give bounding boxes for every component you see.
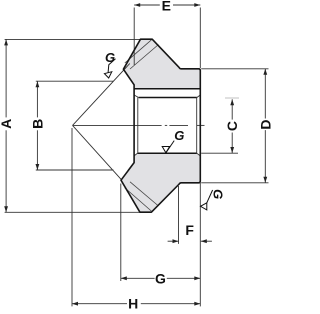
svg-text:E: E	[162, 0, 171, 14]
svg-text:C: C	[224, 121, 240, 131]
svg-text:B: B	[29, 119, 45, 129]
svg-text:F: F	[185, 222, 194, 238]
svg-text:D: D	[257, 120, 271, 130]
svg-text:G: G	[155, 270, 166, 286]
svg-text:A: A	[0, 119, 14, 129]
svg-text:H: H	[128, 296, 138, 312]
svg-text:G: G	[211, 189, 226, 199]
svg-text:G: G	[105, 50, 115, 65]
svg-text:G: G	[174, 128, 184, 143]
